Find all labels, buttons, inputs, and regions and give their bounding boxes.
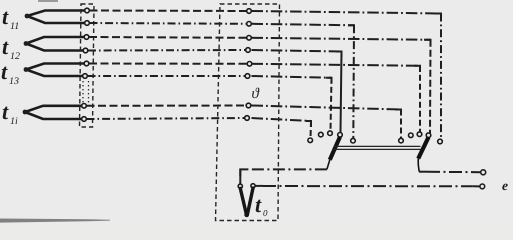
cold junction t0 thermocouple [240,188,253,217]
svg-text:t: t [2,99,9,124]
label t0 [255,192,268,218]
svg-text:13: 13 [9,76,19,87]
svg-text:t: t [2,34,9,59]
output terminal e1 [481,170,486,175]
wire row1 + (long dash, t11 top) [90,11,442,14]
svg-text:t: t [1,59,8,84]
wire row4 - (dash-dot, t12 bottom) [88,50,342,52]
thermocouple T1 junction and leads [25,11,86,24]
svg-text:t: t [2,4,9,29]
drop wire row8 to S1 contact 1 [310,121,313,138]
svg-text:t: t [255,192,262,217]
svg-text:12: 12 [10,51,20,62]
drop wire row6 to S1 contact 3 [331,78,332,131]
selector switch S2 contacts [399,132,443,144]
wire row2 - (dash-dot, t11 bottom) [90,23,355,25]
svg-text:0: 0 [263,208,268,218]
wire S1 wiper to cold junction (dash-dot) [240,169,327,184]
svg-text:11: 11 [10,21,19,32]
label t12 [2,34,20,62]
stray scan smudge bottom left [0,219,110,223]
solid corner elbows of drop wires [306,14,441,128]
continuation dots in box B1 [83,81,89,103]
drop wire row1 to S2 contact 5 [440,14,442,140]
drop wire row4 to S1 contact 4 [341,52,342,133]
drop wire row7 to S2 contact 1 [400,110,402,139]
connector box B1 (dashed) [80,4,95,127]
thermocouple T3 junction and leads [24,64,86,77]
wire row6 - (dash-dot, t13 bottom) [88,76,332,78]
selector switch S1 contacts [308,131,355,143]
label t1i [2,99,18,127]
terminals of box B1 (8 circles) [82,8,90,121]
label t13 [1,59,19,87]
thermocouple T4 junction and leads [23,106,86,119]
label t11 [2,4,19,32]
cold junction t0 terminals [238,184,255,189]
drop wire row2 to S1 contact 5 [352,25,355,138]
mechanical coupling of S1 and S2 (double line) [334,146,421,149]
wire t0 to terminal e2 (dash-dot) [255,185,480,188]
selector switch S2 wiper [418,137,428,172]
svg-text:1i: 1i [10,116,18,127]
drop wire row3 to S2 contact 4 [429,40,432,133]
wire row8 - (dash-dot, t1i bottom) [87,118,312,121]
junction box B2 (tall dashed enclosure) [216,4,280,221]
output terminal e2 [480,184,485,189]
drop wire row5 to S2 contact 3 [419,66,421,132]
wire row7 + (long dash, t1i top) [87,106,402,110]
wire row5 + (long dash, t13 top) [89,64,420,66]
wire row3 + (long dash, t12 top) [89,37,431,40]
wire S2 wiper to terminal e1 (dash-dot) [419,171,481,174]
terminals in box B2 (8 circles) [245,9,252,121]
stray scan mark top edge [38,0,58,2]
svg-text:e: e [502,178,508,193]
selector switch S1 wiper [327,137,340,170]
thermocouple T2 junction and leads [24,37,86,51]
